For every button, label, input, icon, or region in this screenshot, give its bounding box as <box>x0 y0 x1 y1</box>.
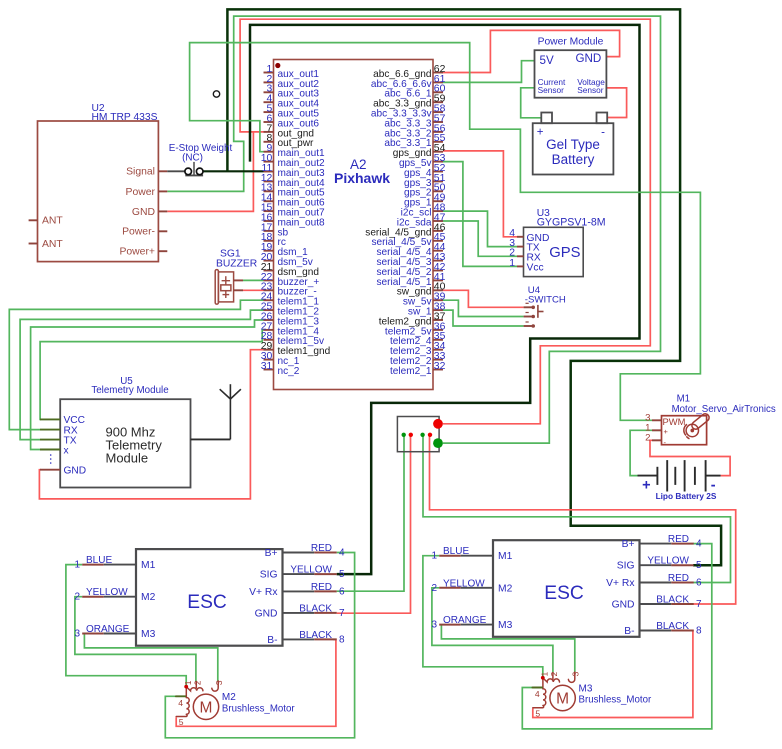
wire red: connector to ESC2 GND <box>430 435 736 604</box>
ESC left body <box>74 543 345 646</box>
svg-text:32: 32 <box>434 361 446 372</box>
svg-text:GND: GND <box>255 608 278 619</box>
wire red: battery - to servo M1 pin2 <box>650 440 730 475</box>
svg-text:+: + <box>642 477 650 493</box>
telemetry module U5 <box>40 376 191 488</box>
wire green: ESC2 M2 to motor M3 coil2 <box>432 588 553 673</box>
svg-text:3: 3 <box>431 620 437 631</box>
svg-text:SIG: SIG <box>617 561 635 572</box>
svg-text:M1: M1 <box>141 560 156 571</box>
svg-text:6: 6 <box>696 578 702 589</box>
wire green: connector to ESC2 V+ Rx <box>423 435 731 583</box>
brushless motor M3 <box>532 671 580 718</box>
svg-text:Sensor: Sensor <box>538 85 565 95</box>
svg-text:BLACK: BLACK <box>299 603 332 614</box>
svg-text:YELLOW: YELLOW <box>86 587 128 598</box>
svg-text:Pixhawk: Pixhawk <box>334 170 390 186</box>
svg-text:M3: M3 <box>498 620 513 631</box>
svg-text:4: 4 <box>178 698 183 708</box>
svg-text:1: 1 <box>541 671 550 676</box>
svg-text:M2: M2 <box>222 692 236 703</box>
wire green: pin27 telem1_4 to U5 VCC <box>40 330 263 420</box>
svg-text:M1: M1 <box>677 394 690 405</box>
svg-text:RED: RED <box>311 582 332 593</box>
wire red: junction to U2 GND <box>167 132 253 212</box>
power module box <box>535 37 607 98</box>
wire green: pin24 telem1_1 to U5 RX <box>9 300 263 429</box>
svg-text:1: 1 <box>74 560 80 571</box>
wire green: pin25 telem1_2 to U5 TX <box>20 310 263 440</box>
wire green: pin48 i2c_scl to GPS TX <box>443 211 517 247</box>
svg-text:M2: M2 <box>141 592 156 603</box>
svg-text:Gel Type: Gel Type <box>546 137 600 152</box>
svg-text:BUZZER: BUZZER <box>216 258 257 269</box>
svg-text:1: 1 <box>509 258 515 269</box>
svg-text:Vcc: Vcc <box>527 262 544 273</box>
svg-text:-SWITCH: -SWITCH <box>525 295 566 306</box>
svg-text:+: + <box>537 126 544 138</box>
wire red gnd: pin62 abc_6.6_gnd to Power Module GND <box>443 30 620 72</box>
wire green: pin53 gps_5v to GPS Vcc <box>443 162 517 267</box>
svg-text:Module: Module <box>106 451 149 466</box>
svg-text:2: 2 <box>645 433 650 444</box>
svg-text:M: M <box>556 691 569 708</box>
svg-text:BLUE: BLUE <box>443 546 469 557</box>
svg-text:YELLOW: YELLOW <box>647 556 689 567</box>
svg-text:ESC: ESC <box>544 583 584 604</box>
wire dark-green signal: E-Stop / pin11 main_out3 to ESC2 SIG <box>203 170 263 172</box>
svg-text:M3: M3 <box>141 629 156 640</box>
wire red: Power Module Voltage Sensor to battery - <box>606 88 626 118</box>
power distribution connector block <box>397 417 443 452</box>
wire green: pin9 main_out1 big loop to servo M1 PWM <box>190 43 701 421</box>
svg-text:V+ Rx: V+ Rx <box>606 578 635 589</box>
svg-text:RED: RED <box>311 543 332 554</box>
switch U4 -SWITCH <box>524 285 566 328</box>
svg-text:5: 5 <box>535 708 540 718</box>
wire green: connector to ESC1 V+ Rx <box>337 435 404 591</box>
svg-text:3: 3 <box>215 680 224 685</box>
IC left pins 1-31 <box>261 64 331 377</box>
brushless motor M2 <box>176 680 224 727</box>
svg-text:YELLOW: YELLOW <box>290 565 332 576</box>
wire green: ESC1 B+ to motor M2 pin4 <box>165 553 354 738</box>
svg-text:5: 5 <box>696 560 702 571</box>
svg-text:1: 1 <box>184 680 193 685</box>
buzzer SG1 <box>215 249 257 305</box>
svg-text:BLACK: BLACK <box>656 621 689 632</box>
battery Gel Type Battery <box>533 113 614 175</box>
svg-text:PWM: PWM <box>663 416 686 427</box>
svg-text:ESC: ESC <box>187 592 227 613</box>
no-connect circle near green loop <box>213 91 219 97</box>
servo M1 Motor_Servo_AirTronics <box>645 394 776 447</box>
svg-text:Battery: Battery <box>552 152 595 167</box>
svg-text:5: 5 <box>339 569 345 580</box>
wire green: Power Module Current Sensor to battery + <box>521 88 542 118</box>
svg-text:8: 8 <box>696 626 702 637</box>
wire black signal: pin10 main_out2 to ESC1 SIG <box>250 25 640 574</box>
svg-text:Telemetry Module: Telemetry Module <box>91 385 169 396</box>
wire green: pin38 sw_1 to switch U4 <box>443 310 524 326</box>
svg-text:GND: GND <box>132 207 155 218</box>
svg-text:nc_2: nc_2 <box>278 366 300 377</box>
svg-text:SIG: SIG <box>260 570 278 581</box>
svg-text:5: 5 <box>179 717 184 727</box>
wire green: pin47 i2c_sda to GPS RX <box>443 221 517 256</box>
svg-text:M: M <box>200 699 213 716</box>
svg-text:-: - <box>601 126 605 138</box>
wire green: buzzer + to pin22 <box>243 279 264 281</box>
svg-text:Signal: Signal <box>126 167 155 178</box>
switch E-Stop Weight (NC) <box>167 143 232 175</box>
svg-text:Brushless_Motor: Brushless_Motor <box>579 695 652 706</box>
GPS module U3 GYGPSV1-8M <box>509 208 605 277</box>
svg-text:GND: GND <box>612 600 635 611</box>
wire green: ESC2 B+ to motor M3 pin4 <box>522 544 712 729</box>
radio module U2 HM TRP 433S <box>29 103 168 262</box>
svg-text:GPS: GPS <box>549 245 580 261</box>
svg-text:Power-: Power- <box>122 227 155 238</box>
svg-text:4: 4 <box>696 539 702 550</box>
svg-text:4: 4 <box>535 689 540 699</box>
battery Lipo Battery 2S <box>638 460 721 501</box>
svg-text:GND: GND <box>576 52 602 65</box>
wire red: buzzer - to pin23 <box>243 289 264 291</box>
wire red: pin29 telem1_gnd to U5 GND <box>39 350 263 499</box>
svg-text:BLACK: BLACK <box>656 595 689 606</box>
svg-text:Power: Power <box>126 187 156 198</box>
svg-text:3: 3 <box>74 629 80 640</box>
svg-text:Motor_Servo_AirTronics: Motor_Servo_AirTronics <box>672 404 776 415</box>
svg-text:GND: GND <box>64 466 87 477</box>
svg-text:BLUE: BLUE <box>86 555 112 566</box>
svg-text:Lipo Battery 2S: Lipo Battery 2S <box>656 491 717 501</box>
svg-text:BLACK: BLACK <box>299 630 332 641</box>
wire red: ESC1 B- to motor M2 pin5 <box>176 639 336 726</box>
antenna <box>191 384 241 439</box>
svg-text:2: 2 <box>74 592 80 603</box>
svg-text:Power+: Power+ <box>119 247 155 258</box>
svg-text:3: 3 <box>572 671 581 676</box>
svg-text:ANT: ANT <box>42 239 63 250</box>
wire green: battery + to servo M1 pin1 <box>630 430 661 475</box>
wire red: pin54 gps_gnd to GPS GND pin <box>443 151 517 237</box>
svg-text:5V: 5V <box>540 54 554 67</box>
wire green: ESC1 M3 to motor M2 coil3 <box>84 634 217 682</box>
svg-text:6: 6 <box>339 586 345 597</box>
wire red: ESC2 B- to motor M3 pin5 <box>533 631 693 718</box>
svg-text:telem2_1: telem2_1 <box>390 366 432 377</box>
wire green: pin61 abc_6.6_6.6v to Power Module 5V <box>443 61 535 83</box>
label M2 <box>222 692 295 714</box>
wire green: ESC1 M2 to motor M2 coil2 <box>75 597 196 682</box>
svg-text:B+: B+ <box>622 539 635 550</box>
svg-text:RED: RED <box>668 534 689 545</box>
ESC right body <box>431 534 702 637</box>
svg-text:2: 2 <box>431 583 437 594</box>
svg-text:RED: RED <box>668 573 689 584</box>
svg-text:ORANGE: ORANGE <box>86 624 130 635</box>
svg-text:7: 7 <box>339 608 345 619</box>
svg-text:Sensor: Sensor <box>577 85 604 95</box>
svg-text:M3: M3 <box>579 683 593 694</box>
wire green: ESC1 M1 to motor M2 coil1 <box>66 565 186 685</box>
wire red: pin40 sw_gnd to switch U4 <box>443 290 524 307</box>
svg-text:+: + <box>664 427 669 436</box>
wire red gnd-net: pin7 out_gnd via top route to connector red dot <box>240 19 650 424</box>
wire green: ESC2 M3 to motor M3 coil3 <box>441 625 574 673</box>
wire red: connector to ESC1 GND <box>337 435 411 613</box>
svg-text:M2: M2 <box>498 583 513 594</box>
wire green: pin26 telem1_3 to U5 x <box>31 320 264 450</box>
svg-text:1: 1 <box>431 551 437 562</box>
svg-text:(NC): (NC) <box>182 153 203 164</box>
svg-text:YELLOW: YELLOW <box>443 578 485 589</box>
IC right pins 62-32 <box>365 64 445 377</box>
svg-text:x: x <box>64 445 69 456</box>
wire green: pin39 sw_5v to switch U4 <box>443 300 524 316</box>
svg-text:B+: B+ <box>265 548 278 559</box>
svg-text:Power Module: Power Module <box>538 37 604 48</box>
svg-text:Brushless_Motor: Brushless_Motor <box>222 703 295 714</box>
wire green: ESC2 M1 to motor M3 coil1 <box>423 556 543 677</box>
svg-text:7: 7 <box>696 599 702 610</box>
svg-text:V+ Rx: V+ Rx <box>249 587 278 598</box>
label M3 <box>579 683 652 705</box>
svg-text:B-: B- <box>624 626 634 637</box>
svg-text:HM TRP 433S: HM TRP 433S <box>92 112 158 123</box>
IC U? A2 Pixhawk body <box>274 60 434 390</box>
svg-text:8: 8 <box>339 634 345 645</box>
svg-text:ANT: ANT <box>42 216 63 227</box>
wire green power-net: U2 Power via top route to connector green dot <box>167 16 660 443</box>
svg-text:M1: M1 <box>498 551 513 562</box>
svg-text:2: 2 <box>194 680 203 685</box>
svg-text:B-: B- <box>267 635 277 646</box>
svg-text:4: 4 <box>339 548 345 559</box>
svg-text:2: 2 <box>550 671 559 676</box>
svg-text:31: 31 <box>261 361 273 372</box>
svg-text:ORANGE: ORANGE <box>443 615 487 626</box>
